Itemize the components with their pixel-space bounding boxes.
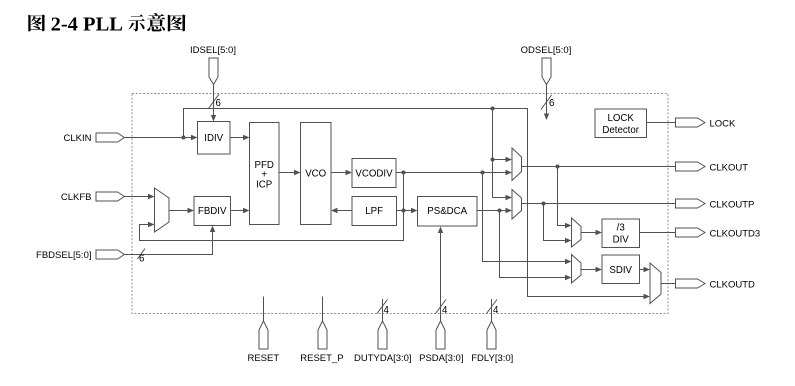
svg-text:DUTYDA[3:0]: DUTYDA[3:0] [354,353,412,364]
svg-text:4: 4 [384,305,390,316]
svg-text:6: 6 [139,254,144,265]
svg-text:FBDSEL[5:0]: FBDSEL[5:0] [36,250,91,261]
svg-text:CLKIN: CLKIN [64,133,92,144]
svg-text:IDIV: IDIV [204,133,223,144]
svg-text:ICP: ICP [256,180,272,191]
svg-text:CLKOUTP: CLKOUTP [710,199,755,210]
svg-text:SDIV: SDIV [609,265,632,276]
svg-text:PSDA[3:0]: PSDA[3:0] [419,353,463,364]
svg-text:VCODIV: VCODIV [355,168,393,179]
svg-text:PS&DCA: PS&DCA [427,206,467,217]
svg-text:CLKOUTD3: CLKOUTD3 [710,228,761,239]
svg-text:CLKOUT: CLKOUT [710,162,749,173]
svg-text:FDLY[3:0]: FDLY[3:0] [471,353,513,364]
svg-text:IDSEL[5:0]: IDSEL[5:0] [190,45,236,56]
svg-text:6: 6 [549,98,554,109]
svg-text:DIV: DIV [613,235,630,246]
svg-text:LOCK: LOCK [710,118,737,129]
svg-text:RESET_P: RESET_P [300,353,343,364]
svg-text:4: 4 [493,305,499,316]
svg-text:LPF: LPF [365,206,383,217]
svg-text:6: 6 [216,98,221,109]
svg-text:RESET: RESET [247,353,279,364]
svg-text:VCO: VCO [305,168,326,179]
svg-text:4: 4 [442,305,448,316]
svg-text:ODSEL[5:0]: ODSEL[5:0] [521,45,572,56]
svg-text:/3: /3 [617,223,625,234]
svg-text:CLKOUTD: CLKOUTD [710,279,756,290]
svg-text:2-4 PLL: 2-4 PLL [51,13,123,35]
svg-text:CLKFB: CLKFB [61,192,92,203]
svg-text:FBDIV: FBDIV [198,206,227,217]
svg-text:Detector: Detector [602,125,639,136]
svg-text:LOCK: LOCK [608,113,635,124]
